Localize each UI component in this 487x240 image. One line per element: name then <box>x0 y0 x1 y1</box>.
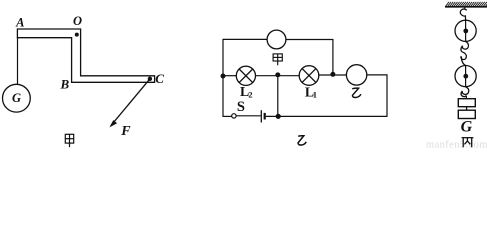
svg-text:B: B <box>59 76 69 91</box>
bottom wire right <box>266 115 388 117</box>
weight block 2 <box>458 110 475 118</box>
junction dot mid <box>275 72 280 77</box>
figure label jia <box>65 134 73 147</box>
svg-text:C: C <box>155 71 164 86</box>
wire: middle row right + right edge <box>367 75 387 117</box>
hook below pulley 1 <box>461 41 469 51</box>
bottom wire left <box>223 115 232 117</box>
pulley 2 <box>455 66 476 87</box>
switch S circle <box>232 114 236 118</box>
dot C <box>148 77 152 81</box>
svg-text:F: F <box>120 124 131 139</box>
wire: middle row segment 3 <box>319 74 347 76</box>
wire: mid vertical down <box>277 75 279 116</box>
wire: left vertical <box>222 39 224 117</box>
label yi under meter <box>352 88 361 97</box>
wire: right branch vertical <box>332 39 334 75</box>
label jia under meter <box>273 54 282 65</box>
wire: top branch left <box>223 38 267 40</box>
battery long plate <box>260 110 262 122</box>
hook above pulley 2 <box>461 52 466 66</box>
stub to weight <box>465 96 467 99</box>
ceiling <box>445 2 487 7</box>
weight block 1 <box>458 99 475 107</box>
crank outline AOBC <box>17 29 154 82</box>
force arrow F <box>109 80 149 128</box>
svg-text:1: 1 <box>313 90 317 100</box>
svg-text:S: S <box>237 99 245 115</box>
junction dot right of L1 <box>330 72 335 77</box>
svg-text:G: G <box>461 118 473 135</box>
figure label yi <box>298 136 306 145</box>
string from A <box>17 38 19 85</box>
switch lever <box>236 115 260 117</box>
lamp L1 <box>299 66 319 86</box>
wire: middle row segment 1 <box>223 75 236 77</box>
lamp L2 <box>236 66 255 85</box>
meter jia (circle) <box>267 30 286 49</box>
junction dot battery <box>276 114 281 119</box>
svg-text:2: 2 <box>248 90 252 100</box>
svg-text:O: O <box>73 14 82 28</box>
connector stub <box>466 107 468 111</box>
svg-text:A: A <box>15 16 24 30</box>
svg-text:G: G <box>12 91 21 105</box>
figure label bing <box>462 138 474 148</box>
wire: top branch right <box>286 39 333 41</box>
hook from ceiling <box>460 7 467 20</box>
meter yi (circle) <box>346 65 366 85</box>
svg-text:manfen5.com: manfen5.com <box>426 139 487 149</box>
battery short plate <box>264 113 266 120</box>
pulley 1 <box>455 20 476 41</box>
hook below pulley 2 <box>461 87 469 97</box>
pivot dot O <box>75 33 79 37</box>
weight circle G <box>3 84 31 112</box>
junction dot left <box>221 74 226 79</box>
wire: middle row segment 2 <box>256 75 300 77</box>
